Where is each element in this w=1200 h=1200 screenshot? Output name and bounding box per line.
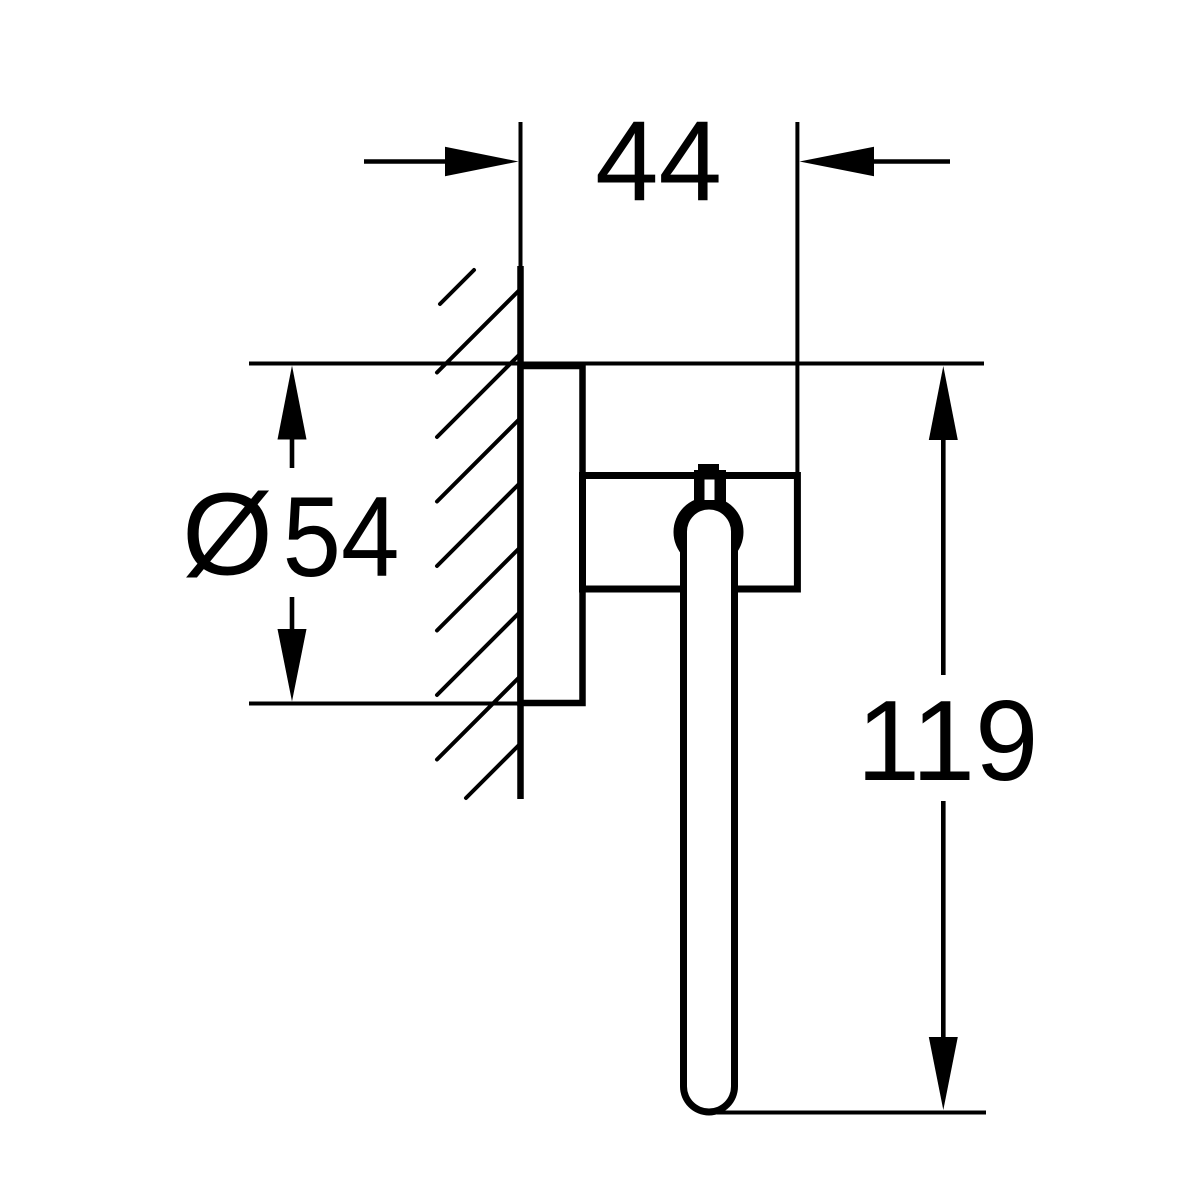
holder tube outer [680, 505, 738, 1116]
O54 dim upper tail [290, 439, 295, 468]
O54 dim lower tail [290, 597, 295, 630]
O54 dim down arrowhead [278, 629, 307, 702]
wall plate (side view) [521, 366, 583, 703]
44 dim left arrowhead [445, 147, 519, 177]
44 dim right arrowhead [800, 147, 875, 177]
hatching (wall section) [437, 270, 521, 798]
extension line top (44 dim, left side / wall line upper part) [519, 122, 523, 300]
pivot pin slot [705, 480, 715, 501]
arm (holder support, side view) [583, 476, 798, 590]
knuckle outer circle [674, 497, 744, 567]
pivot pin [694, 470, 726, 520]
119 dim lower tail [941, 801, 946, 1038]
extension line (44 dim, right) [795, 122, 799, 478]
44 dim left arrow tail [364, 159, 448, 164]
svg-text:Ø: Ø [182, 469, 273, 600]
119 dim upper tail [941, 439, 946, 675]
svg-text:119: 119 [857, 678, 1039, 805]
holder tube interior [687, 510, 731, 1109]
svg-text:54: 54 [283, 474, 400, 601]
extension line horizontal bottom (119 dim) [717, 1111, 986, 1115]
O54 dim up arrowhead [278, 366, 307, 440]
svg-text:44: 44 [595, 99, 722, 226]
119 dim up arrowhead [929, 366, 958, 440]
44 dim right arrow tail [874, 159, 950, 164]
pivot pin bump above arm [698, 464, 719, 474]
119 dim down arrowhead [929, 1037, 958, 1110]
extension line horizontal top (O54 top / 119 top) [249, 362, 984, 366]
wall surface line [517, 266, 524, 799]
extension line horizontal (O54 bottom) [249, 702, 540, 706]
